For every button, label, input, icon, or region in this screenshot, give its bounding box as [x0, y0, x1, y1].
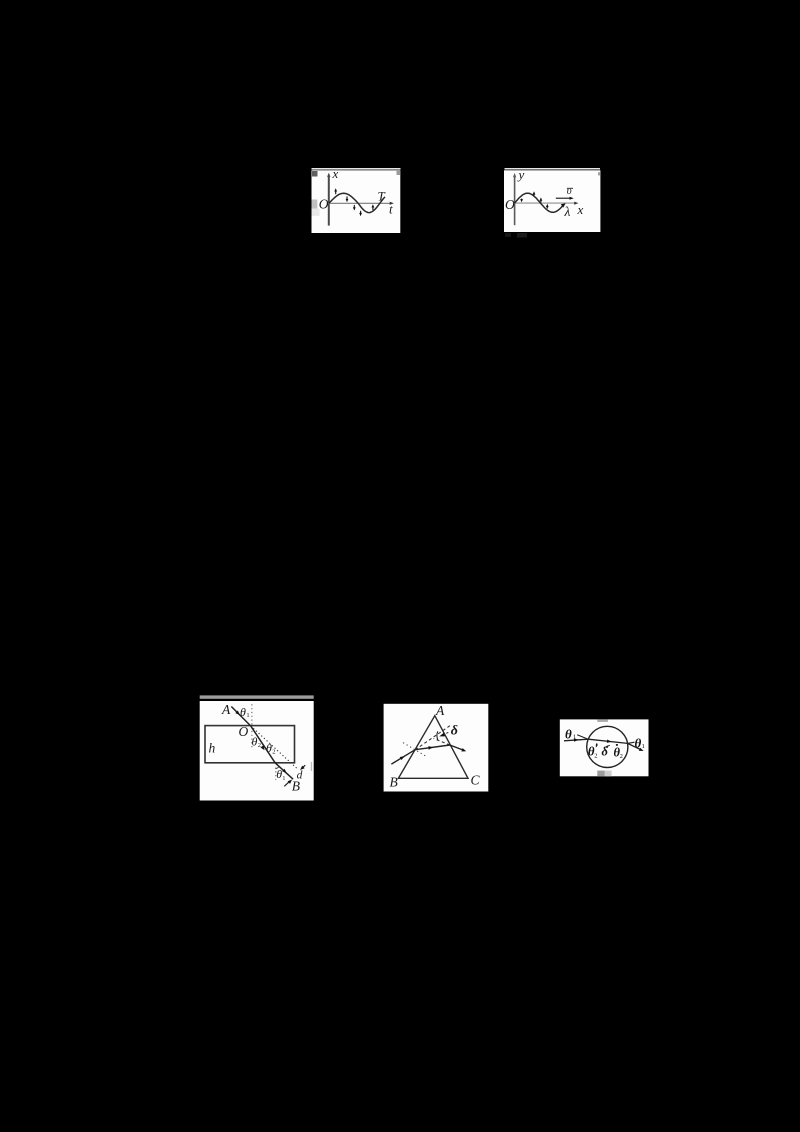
- dashed normal at O: [251, 704, 253, 749]
- grey mark top-right box 2: [598, 172, 600, 175]
- svg-text:1: 1: [642, 743, 645, 750]
- prism triangle ABC: [398, 716, 468, 779]
- exit ray arrowhead: [282, 769, 287, 773]
- deviation angle arc delta: [437, 731, 438, 740]
- grey corner square top-left: [312, 171, 318, 177]
- svg-text:2: 2: [594, 753, 597, 760]
- y axis (vertical) of graph 2: [514, 177, 516, 226]
- incident ray A-O: [231, 707, 250, 726]
- exit ray prism: [450, 745, 463, 750]
- top grey line above box 1: [312, 168, 401, 170]
- svg-text:h: h: [209, 741, 216, 756]
- grey strip above box 3: [200, 695, 314, 698]
- delta pointer arrow: [444, 732, 448, 734]
- velocity arrow b2 up: [533, 194, 535, 195]
- grey patch left edge: [312, 200, 318, 209]
- svg-text:B: B: [390, 775, 398, 790]
- svg-text:O: O: [505, 197, 515, 212]
- svg-text:θ: θ: [240, 705, 246, 719]
- velocity arrow 1 up: [335, 191, 337, 194]
- incident arrowhead: [235, 711, 240, 716]
- ray inside prism: [415, 745, 450, 750]
- x axis (vertical) of graph 1: [328, 176, 330, 226]
- white panel box 1: [312, 170, 401, 233]
- white panel box 5: [560, 719, 649, 776]
- svg-text:t: t: [389, 202, 393, 217]
- svg-text:y: y: [517, 167, 525, 182]
- svg-text:A: A: [221, 702, 231, 717]
- svg-text:2: 2: [258, 742, 261, 749]
- velocity arrow 5 up: [372, 207, 374, 210]
- velocity arrow b4 up: [546, 207, 548, 209]
- faint marks below box 2: [505, 233, 511, 237]
- velocity arrow 3 down: [353, 205, 355, 208]
- incident arrowhead sphere: [574, 738, 579, 741]
- dashed exit ray back-extension: [434, 739, 450, 746]
- exit angle tick: [616, 744, 618, 746]
- incident arrowhead prism: [400, 756, 405, 760]
- slab rectangle: [205, 726, 295, 763]
- svg-text:C: C: [471, 773, 481, 788]
- entry normal outward: [577, 735, 588, 740]
- velocity arrow b1 down: [521, 199, 523, 200]
- dashed normal at exit: [275, 768, 277, 780]
- svg-text:1: 1: [282, 775, 285, 782]
- incident ray sphere: [564, 739, 588, 741]
- grey notch bottom right box 5: [605, 771, 612, 777]
- dashed normal at prism entry: [403, 743, 426, 757]
- grey notch bottom left box 5: [597, 771, 605, 777]
- curve end arrowhead: [561, 203, 566, 207]
- svg-text:θ: θ: [635, 736, 642, 751]
- t axis (horizontal) of graph 1: [327, 202, 391, 204]
- exit ray sphere: [628, 743, 641, 749]
- exit ray: [275, 763, 293, 779]
- dashed incident extension: [415, 725, 450, 749]
- velocity arrow 4 down: [360, 211, 362, 213]
- svg-text:1: 1: [246, 712, 249, 719]
- svg-text:B: B: [292, 779, 300, 794]
- overbar of v: [567, 187, 573, 189]
- x axis (horizontal) of graph 2: [513, 202, 575, 204]
- svg-text:x: x: [577, 202, 584, 217]
- ray inside sphere: [588, 739, 627, 743]
- white panel box 2: [504, 170, 600, 232]
- grey line right edge box 3: [311, 762, 312, 771]
- grey patch left edge lower: [312, 209, 320, 216]
- svg-text:2: 2: [620, 753, 623, 760]
- d measure arrow lower: [284, 781, 290, 786]
- incident ray to prism: [391, 750, 415, 764]
- grey mark top-right: [397, 171, 401, 175]
- refracted arrowhead: [261, 745, 265, 750]
- svg-text:θ: θ: [565, 727, 572, 742]
- exit arrowhead sphere: [639, 748, 644, 751]
- white panel box 4: [384, 704, 489, 792]
- sine curve x-t: [329, 193, 385, 212]
- svg-text:λ: λ: [564, 204, 571, 219]
- circle: [587, 726, 628, 767]
- svg-text:A: A: [435, 703, 445, 718]
- grey notch top box 5: [597, 719, 608, 722]
- inside ray arrowhead: [428, 746, 433, 750]
- angle arc at exit: [275, 766, 279, 769]
- sine curve y-x: [515, 193, 564, 212]
- center mark delta: [607, 745, 610, 747]
- svg-text:δ: δ: [602, 745, 609, 759]
- svg-text:υ: υ: [567, 185, 572, 197]
- inside arrowhead sphere: [607, 740, 612, 743]
- refracted ray O to exit: [251, 726, 275, 763]
- wave speed arrow v: [556, 197, 571, 199]
- svg-text:δ: δ: [451, 723, 458, 738]
- svg-text:O: O: [319, 197, 329, 212]
- white panel box 3: [200, 701, 314, 801]
- svg-text:θ: θ: [252, 735, 258, 749]
- svg-text:2: 2: [272, 749, 275, 756]
- exit normal outward: [628, 742, 635, 743]
- svg-text:x: x: [332, 166, 339, 181]
- velocity arrow 2 down: [346, 196, 348, 199]
- d measure arrow upper: [302, 765, 305, 768]
- svg-text:O: O: [239, 724, 249, 739]
- svg-text:1: 1: [573, 734, 576, 741]
- top grey line above box 2: [505, 168, 601, 170]
- dashed undeviated line from O: [251, 726, 299, 770]
- velocity arrow b3 up: [540, 200, 542, 202]
- exit arrowhead prism: [461, 748, 466, 751]
- svg-text:θ: θ: [266, 741, 272, 755]
- entry angle tick: [595, 744, 598, 748]
